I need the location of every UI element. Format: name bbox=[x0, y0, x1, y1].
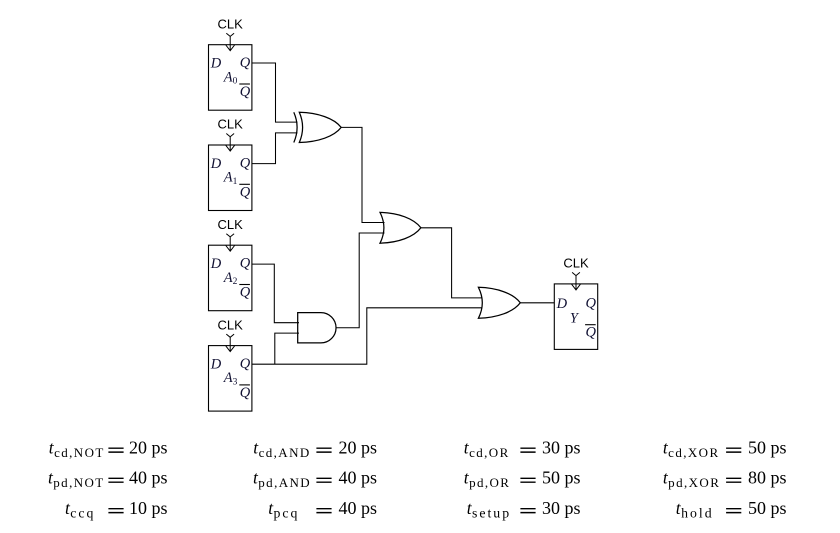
svg-text:40 ps: 40 ps bbox=[129, 468, 168, 488]
svg-text:30 ps: 30 ps bbox=[542, 437, 581, 457]
svg-text:Q: Q bbox=[240, 184, 251, 200]
svg-text:50 ps: 50 ps bbox=[542, 468, 581, 488]
svg-text:80 ps: 80 ps bbox=[748, 468, 787, 488]
svg-text:Q: Q bbox=[586, 325, 597, 341]
svg-text:Q: Q bbox=[240, 256, 251, 272]
svg-text:Q: Q bbox=[240, 356, 251, 372]
svg-text:10 ps: 10 ps bbox=[129, 498, 168, 518]
svg-text:D: D bbox=[210, 156, 222, 172]
svg-text:CLK: CLK bbox=[563, 256, 589, 271]
svg-text:CLK: CLK bbox=[218, 217, 244, 232]
svg-text:50 ps: 50 ps bbox=[748, 498, 787, 518]
svg-text:20 ps: 20 ps bbox=[339, 437, 378, 457]
svg-text:50 ps: 50 ps bbox=[748, 437, 787, 457]
svg-text:D: D bbox=[210, 56, 222, 72]
svg-text:Q: Q bbox=[586, 296, 597, 312]
svg-text:40 ps: 40 ps bbox=[339, 468, 378, 488]
svg-text:CLK: CLK bbox=[218, 317, 244, 332]
svg-text:20 ps: 20 ps bbox=[129, 437, 168, 457]
svg-text:Q: Q bbox=[240, 385, 251, 401]
svg-text:Q: Q bbox=[240, 84, 251, 100]
svg-text:D: D bbox=[556, 296, 568, 312]
svg-text:CLK: CLK bbox=[218, 16, 244, 31]
svg-text:D: D bbox=[210, 356, 222, 372]
svg-text:D: D bbox=[210, 256, 222, 272]
svg-text:30 ps: 30 ps bbox=[542, 498, 581, 518]
svg-text:Q: Q bbox=[240, 285, 251, 301]
svg-text:40 ps: 40 ps bbox=[339, 498, 378, 518]
svg-text:CLK: CLK bbox=[218, 117, 244, 132]
svg-text:Q: Q bbox=[240, 55, 251, 71]
svg-text:Q: Q bbox=[240, 155, 251, 171]
